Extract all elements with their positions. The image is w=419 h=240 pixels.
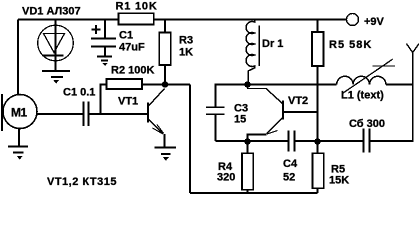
wire L1 right to antenna corner [386,84,413,86]
svg-text:C1: C1 [119,30,133,42]
svg-text:15: 15 [234,114,246,126]
svg-text:L1 (text): L1 (text) [341,90,384,102]
wire VT1 collector node to corner [165,84,190,86]
svg-text:52: 52 [283,172,295,184]
wire vertical x190 [189,85,191,194]
capacitor C2 (C1 0.1) [84,102,149,127]
resistor R5 15K [313,142,324,194]
node dot (base divider) [314,138,320,144]
svg-text:+9V: +9V [364,16,385,28]
capacitor C3 [206,85,248,142]
antenna [406,44,419,53]
svg-text:1K: 1K [179,47,193,59]
resistor R2 [101,79,166,114]
svg-text:47uF: 47uF [119,42,145,54]
svg-text:C1 0.1: C1 0.1 [63,87,95,99]
transistor VT1 [148,89,165,148]
LED VD1 [38,20,74,72]
resistor R1 [118,13,153,24]
inductor Dr1 [246,20,259,85]
svg-text:VT2: VT2 [288,95,308,107]
svg-text:Сб 300: Сб 300 [349,118,385,130]
ground (M1) [8,147,28,160]
resistor R4 [242,142,253,194]
node dot (VT2 collector / Dr1) [244,81,250,87]
terminal +9V [347,14,359,26]
svg-text:320: 320 [217,172,235,184]
svg-text:R3: R3 [179,35,193,47]
svg-text:C4: C4 [283,158,298,170]
svg-text:R2 100K: R2 100K [111,65,154,77]
capacitor C5 (Сб 300) [364,129,370,153]
wire y141 mid segment [295,140,364,142]
inductor L1 [337,59,395,93]
ground (VT1) [155,148,177,161]
transistor VT2 [248,85,318,142]
svg-text:R5 58K: R5 58K [329,39,372,51]
ground (C1) [97,57,112,66]
wire y141 right segment [370,53,413,142]
ground (VD1) [42,71,70,83]
svg-text:VT1,2 КТ315: VT1,2 КТ315 [47,176,117,188]
svg-text:15K: 15K [329,175,349,187]
wire top rail +9V [18,19,346,21]
node dot (emitter VT2 / R4) [244,138,250,144]
wire oscillator node y84 [216,84,337,86]
resistor R3 [159,20,170,85]
svg-text:M1: M1 [11,106,27,120]
svg-text:Dr 1: Dr 1 [262,38,283,50]
wire bottom [190,192,318,194]
svg-text:R1 10K: R1 10K [116,1,158,13]
capacitor C1 47uF [91,20,116,57]
svg-text:VD1 АЛ307: VD1 АЛ307 [22,6,81,18]
node dot (VT1 collector) [162,81,168,87]
resistor R5 58K [312,20,324,142]
svg-text:VT1: VT1 [118,96,138,108]
microphone M1 [2,94,84,146]
capacitor C4 [289,131,295,152]
wire y141 left segment [216,140,289,142]
wire left drop to M1 [17,20,19,95]
